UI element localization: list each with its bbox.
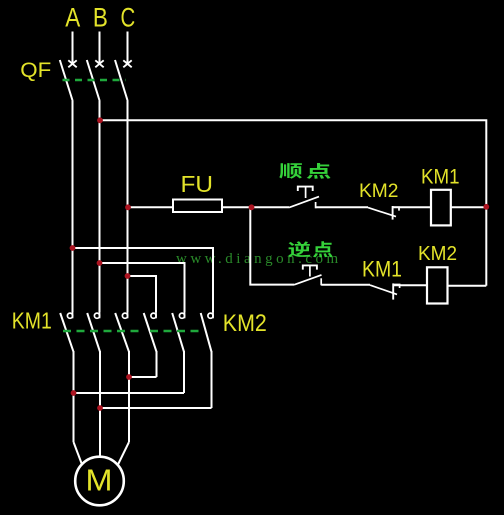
svg-text:M: M (86, 464, 113, 498)
svg-text:B: B (93, 2, 108, 32)
svg-text:KM1: KM1 (421, 164, 460, 188)
svg-text:FU: FU (181, 171, 214, 197)
svg-text:KM2: KM2 (418, 243, 457, 265)
svg-text:C: C (121, 2, 136, 32)
svg-text:KM1: KM1 (362, 257, 402, 282)
svg-text:KM2: KM2 (223, 310, 267, 337)
svg-text:KM1: KM1 (12, 307, 52, 333)
svg-text:QF: QF (20, 58, 51, 82)
svg-text:KM2: KM2 (359, 180, 399, 202)
svg-text:A: A (65, 2, 80, 32)
